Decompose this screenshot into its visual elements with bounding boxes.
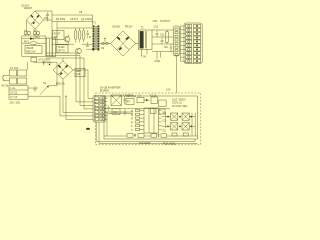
label +12V <box>166 89 171 92</box>
svg-text:BD2 2A: BD2 2A <box>56 83 65 86</box>
transistor Q4 <box>182 113 189 120</box>
svg-text:210: 210 <box>76 73 81 76</box>
wire <box>63 79 94 112</box>
svg-text:HI-VOLT SEC: HI-VOLT SEC <box>172 105 188 108</box>
capacitor C14 <box>124 109 127 116</box>
wire stubs to CN1 <box>181 26 186 61</box>
bundle wire A <box>46 53 94 102</box>
fuse box F2 <box>31 57 36 63</box>
svg-text:C5+: C5+ <box>44 17 49 20</box>
resistor R12 <box>159 109 165 114</box>
resistor R11 <box>151 109 157 114</box>
transformer T2 <box>139 27 153 50</box>
diode D10 <box>86 48 95 50</box>
thermistor TH1 <box>43 61 52 65</box>
svg-text:L 4x..: L 4x.. <box>10 87 16 90</box>
svg-text:R1 220k: R1 220k <box>56 18 66 21</box>
svg-text:C10: C10 <box>154 25 159 28</box>
transistor Q5 <box>171 123 178 130</box>
bundle wire B <box>46 56 94 106</box>
bundle wire D <box>73 70 94 98</box>
wire <box>65 96 93 120</box>
wire <box>44 19 53 21</box>
varistor MOV1 <box>22 40 46 44</box>
resistor R5 <box>87 30 91 38</box>
svg-text:D5-D8: D5-D8 <box>113 25 121 28</box>
svg-text:R: R <box>131 118 133 121</box>
svg-text:C11: C11 <box>160 33 165 36</box>
wire nested loop 1 <box>96 122 195 141</box>
svg-text:R10: R10 <box>113 111 118 114</box>
diode D9 <box>22 36 46 40</box>
module dashed enclosure <box>96 93 201 145</box>
transistor Q1 <box>64 35 70 45</box>
svg-text:GND: GND <box>155 60 161 63</box>
svg-text:+ +: + + <box>24 29 28 32</box>
junction blob <box>86 128 90 130</box>
resistor R8 <box>151 97 157 103</box>
wire <box>27 20 36 31</box>
label CN1 <box>153 20 171 23</box>
label 115V <box>10 102 21 105</box>
resistor R7 <box>126 98 134 104</box>
switch S1 <box>40 82 49 95</box>
wire rail <box>22 36 46 57</box>
wire <box>35 11 52 57</box>
transformer T1 <box>93 21 100 50</box>
output rail 4 <box>152 51 174 53</box>
wire <box>192 113 195 136</box>
capacitor pair C3 C4 <box>33 29 39 36</box>
capacitor pair C1 C2 <box>24 29 30 36</box>
svg-text:C13 R22: C13 R22 <box>123 94 133 97</box>
capacitor C12 <box>170 44 173 52</box>
wire stubs CN2 to board <box>105 98 108 119</box>
svg-text:C: C <box>131 125 133 128</box>
wire top rail <box>52 15 93 26</box>
label NTC <box>39 58 51 61</box>
svg-text:TH1: TH1 <box>47 61 52 64</box>
capacitor C13 <box>123 94 133 105</box>
svg-text:C: C <box>131 129 133 132</box>
wire <box>104 135 198 137</box>
svg-text:C6 472: C6 472 <box>70 18 79 21</box>
svg-text:CX 22: CX 22 <box>10 91 18 94</box>
wire rail 2 <box>52 21 93 23</box>
wire second rail <box>57 22 93 45</box>
label Q1 <box>79 11 93 21</box>
svg-text:CN1: CN1 <box>153 20 159 23</box>
bottom component cluster A <box>127 134 144 138</box>
capacitor C9 <box>101 38 108 51</box>
wire <box>52 43 93 45</box>
svg-text:REG 5V: REG 5V <box>26 50 36 53</box>
wire nested loop 2 <box>99 122 198 143</box>
wire stubs <box>155 52 161 63</box>
capacitor C10 <box>154 25 159 37</box>
wire <box>99 43 110 45</box>
bridge rectifier BR3 <box>111 31 136 56</box>
svg-text:+ +: + + <box>33 29 37 32</box>
svg-text:OUTPUT: OUTPUT <box>160 20 171 23</box>
pin header P1 <box>174 26 180 56</box>
svg-text:Q1 13001: Q1 13001 <box>81 18 93 21</box>
capacitor C5 <box>44 12 49 22</box>
wire rail bottom <box>22 56 46 58</box>
wire <box>104 112 133 136</box>
bridge rectifier BR1 <box>27 11 44 29</box>
wire <box>28 87 38 89</box>
wire <box>104 108 170 110</box>
svg-text:0V: 0V <box>143 56 146 59</box>
svg-text:CY 10: CY 10 <box>10 96 18 99</box>
svg-text:R: R <box>131 114 133 117</box>
diode D11 <box>137 97 150 102</box>
transformer T3 <box>111 95 122 106</box>
svg-text:AC IN: AC IN <box>2 84 9 87</box>
svg-text:NTC 5D-9: NTC 5D-9 <box>39 58 51 61</box>
label D5-D8 <box>113 25 134 28</box>
wire drops under T2 <box>141 50 147 59</box>
label AC <box>2 84 9 87</box>
module inner board <box>104 96 198 139</box>
label board id <box>139 142 176 145</box>
capacitor CY <box>34 86 37 92</box>
capacitor C8 <box>86 42 89 46</box>
svg-text:12V: 12V <box>166 89 171 92</box>
resistor row bank <box>131 109 141 132</box>
diode blobs <box>167 116 192 128</box>
transistor Q2 <box>76 48 82 54</box>
label C6 <box>70 18 79 21</box>
bundle wire C <box>46 58 94 109</box>
wire <box>27 62 29 70</box>
capacitor row <box>172 133 188 136</box>
switch SW <box>9 78 26 84</box>
wire <box>28 96 94 116</box>
label rows right of IC <box>163 112 167 133</box>
svg-text:FR107: FR107 <box>125 25 133 28</box>
svg-text:PCB 6632L: PCB 6632L <box>163 142 176 145</box>
resistor R9 <box>159 100 167 106</box>
label block BR2 <box>75 68 85 77</box>
bottom component cluster B <box>151 134 167 137</box>
svg-text:R: R <box>131 110 133 113</box>
svg-text:RV1: RV1 <box>24 40 29 43</box>
capacitor C7 <box>82 28 85 43</box>
connector CN2 <box>93 96 106 123</box>
svg-text:KLS-EE37: KLS-EE37 <box>139 142 151 145</box>
resistor R2 <box>53 31 65 40</box>
label parts row <box>126 94 157 98</box>
capacitor C11 <box>160 33 165 44</box>
resistor R10 <box>112 109 120 114</box>
resistor R3 <box>74 28 77 43</box>
output rail 1 <box>152 29 174 31</box>
svg-text:F1 T2A: F1 T2A <box>10 67 18 70</box>
svg-text:ZD1: ZD1 <box>35 36 40 39</box>
label R1 <box>56 18 66 21</box>
svg-text:R: R <box>131 121 133 124</box>
svg-text:1N4007: 1N4007 <box>24 7 33 10</box>
label D1-D4 <box>22 4 33 10</box>
bridge rectifier BR2 <box>53 61 73 79</box>
winding box L1 <box>46 38 55 56</box>
resistor R4 <box>78 28 81 43</box>
wire <box>62 58 64 61</box>
filter block LF1 <box>9 86 28 100</box>
wire <box>162 117 196 127</box>
label under BR2 <box>56 83 65 86</box>
connector CN1 <box>184 23 202 63</box>
plug P2 <box>3 75 10 81</box>
svg-text:115 / 230: 115 / 230 <box>10 102 21 105</box>
output rail 2 <box>152 36 174 38</box>
svg-text:BOARD: BOARD <box>100 90 109 93</box>
regulator box U1 <box>25 46 42 54</box>
wire <box>136 43 139 45</box>
capacitor C15 <box>107 106 109 111</box>
label 250V <box>10 67 18 70</box>
label block text <box>172 98 188 107</box>
fuse F1 <box>9 70 26 76</box>
resistor R6 <box>165 30 169 49</box>
wire <box>49 85 57 87</box>
svg-text:OPTO: OPTO <box>58 50 65 53</box>
wire down to module <box>176 56 178 93</box>
control box U2 <box>57 45 69 53</box>
label module title <box>100 87 121 93</box>
transistor Q6 <box>182 123 189 130</box>
transistor Q3 <box>171 113 178 120</box>
IC U3 <box>141 108 162 133</box>
svg-text:R2 47: R2 47 <box>54 32 61 35</box>
wire <box>34 62 57 85</box>
output rail 3 <box>152 43 174 45</box>
